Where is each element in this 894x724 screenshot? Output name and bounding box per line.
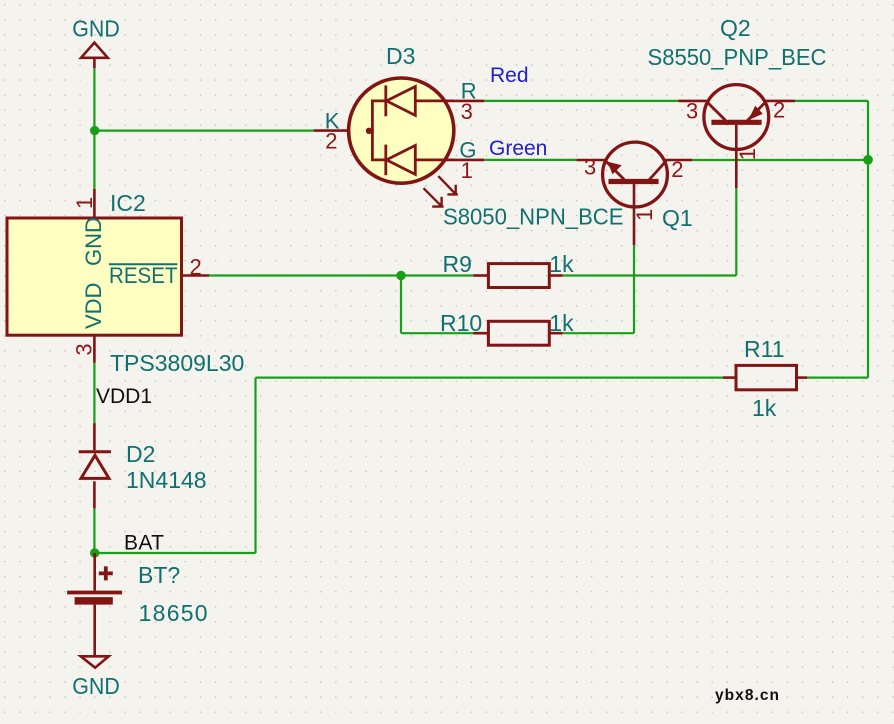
svg-text:1: 1 bbox=[72, 197, 97, 209]
wire up to Q1 base bbox=[633, 245, 635, 333]
power symbol GND bottom bbox=[81, 656, 109, 667]
wire R10 to Q1 base column bbox=[563, 332, 634, 334]
wire Q1 collector to right rail bbox=[692, 159, 868, 161]
bottom diode triangle bbox=[387, 145, 416, 174]
emitter diagonal bbox=[747, 102, 766, 121]
battery BT? bbox=[67, 553, 122, 656]
svg-text:2: 2 bbox=[671, 157, 683, 182]
wire junction to D3 K bbox=[94, 130, 313, 132]
base bar bbox=[711, 120, 761, 125]
pin R bbox=[454, 100, 485, 103]
pin 2 collector bbox=[664, 159, 692, 162]
resistor R9 bbox=[443, 251, 575, 288]
wire up to Q2 base bbox=[735, 188, 737, 276]
svg-text:3: 3 bbox=[584, 154, 596, 179]
wire RESET to R9 bbox=[209, 274, 473, 276]
svg-text:S8050_NPN_BCE: S8050_NPN_BCE bbox=[443, 204, 624, 230]
svg-text:IC2: IC2 bbox=[110, 190, 146, 216]
junction right rail bbox=[863, 155, 873, 165]
wire riser down to BAT bbox=[254, 378, 256, 553]
dual LED D3 bbox=[314, 78, 485, 207]
svg-text:VDD: VDD bbox=[81, 283, 106, 329]
junction BAT bbox=[90, 548, 99, 557]
svg-text:1: 1 bbox=[735, 148, 760, 160]
wire R11 left to riser bbox=[256, 377, 724, 379]
svg-text:3: 3 bbox=[461, 99, 473, 124]
svg-text:R9: R9 bbox=[443, 251, 472, 277]
svg-text:18650: 18650 bbox=[139, 600, 208, 626]
svg-text:GND: GND bbox=[81, 217, 106, 266]
svg-text:BAT: BAT bbox=[124, 532, 164, 555]
wire junction down to R10 row bbox=[400, 276, 402, 334]
svg-text:3: 3 bbox=[72, 343, 97, 355]
svg-text:TPS3809L30: TPS3809L30 bbox=[110, 350, 244, 376]
pin 1 base bbox=[735, 125, 738, 188]
junction RESET node bbox=[396, 271, 405, 280]
emitter arrow bbox=[608, 162, 622, 174]
wire right rail vertical bbox=[867, 101, 869, 378]
svg-text:1N4148: 1N4148 bbox=[126, 467, 207, 493]
svg-text:Green: Green bbox=[489, 137, 547, 160]
collector diagonal bbox=[649, 161, 666, 180]
svg-text:R10: R10 bbox=[440, 310, 482, 336]
bottom diode cathode bar bbox=[384, 145, 387, 176]
svg-text:2: 2 bbox=[190, 255, 202, 280]
svg-text:GND: GND bbox=[72, 16, 120, 42]
svg-text:Red: Red bbox=[490, 64, 529, 87]
top diode triangle bbox=[387, 87, 416, 116]
svg-text:1k: 1k bbox=[549, 251, 574, 277]
wire Q2 emitter to right rail bbox=[795, 100, 868, 102]
resistor R11 bbox=[723, 336, 807, 421]
wire D3 R to Q2 pin3 bbox=[484, 100, 678, 102]
plus sign bbox=[99, 566, 113, 580]
op-amp IC2 body (TPS3809 supervisor) bbox=[7, 217, 182, 335]
emitter diagonal bbox=[605, 161, 624, 180]
wire D3 G to Q1 pin3 bbox=[484, 159, 576, 161]
svg-text:1: 1 bbox=[632, 209, 657, 221]
emitter arrow (PNP, points to base) bbox=[748, 106, 763, 120]
transistor Q2 (S8550 PNP) bbox=[678, 85, 795, 188]
pin 1 base bbox=[633, 184, 636, 245]
svg-text:GND: GND bbox=[72, 673, 120, 699]
transistor Q1 (S8050 NPN) bbox=[576, 142, 692, 245]
IC2 pin 3 bbox=[72, 335, 97, 363]
wire GND to IC2 pin1 bbox=[93, 68, 95, 189]
pin 3 emitter bbox=[576, 159, 605, 162]
wire IC2 pin3 to D2 bbox=[93, 363, 95, 423]
resistor R10 bbox=[440, 310, 574, 345]
svg-text:D3: D3 bbox=[386, 43, 415, 69]
pin G bbox=[454, 159, 485, 162]
internal branch bbox=[369, 101, 386, 131]
junction at GND column bbox=[90, 126, 99, 135]
diode D2 bbox=[79, 423, 111, 508]
svg-text:S8550_PNP_BEC: S8550_PNP_BEC bbox=[648, 44, 827, 70]
svg-text:Q2: Q2 bbox=[720, 15, 751, 41]
wire D2 to BAT junction bbox=[93, 508, 95, 553]
svg-text:BT?: BT? bbox=[138, 562, 180, 588]
svg-text:2: 2 bbox=[325, 129, 337, 154]
svg-text:Q1: Q1 bbox=[662, 205, 693, 231]
svg-text:VDD1: VDD1 bbox=[96, 385, 152, 408]
svg-text:1: 1 bbox=[461, 158, 473, 183]
top diode cathode bar bbox=[384, 85, 387, 116]
pin 2 emitter bbox=[766, 100, 795, 103]
power symbol GND top bbox=[81, 43, 108, 69]
wire BAT junction to riser bbox=[94, 552, 255, 554]
pin K bbox=[314, 129, 348, 132]
svg-text:2: 2 bbox=[773, 98, 785, 123]
svg-text:1k: 1k bbox=[752, 395, 777, 421]
collector diagonal bbox=[707, 102, 726, 121]
svg-text:ybx8.cn: ybx8.cn bbox=[715, 687, 779, 704]
base bar bbox=[609, 179, 659, 184]
pin 3 collector bbox=[678, 100, 706, 103]
svg-text:3: 3 bbox=[686, 98, 698, 123]
IC2 pin 2 bbox=[182, 255, 209, 280]
wire to R10 left bbox=[401, 332, 473, 334]
svg-text:R11: R11 bbox=[744, 336, 785, 362]
wire R11 right to rail bbox=[807, 377, 868, 379]
svg-text:D2: D2 bbox=[126, 441, 155, 467]
LED emission arrows bbox=[424, 176, 458, 207]
top plate bbox=[67, 591, 122, 595]
bottom plate bbox=[75, 597, 113, 605]
svg-text:RESET: RESET bbox=[109, 263, 178, 288]
IC2 pin 1 bbox=[72, 189, 97, 218]
wire R9 to Q2 base column bbox=[563, 274, 737, 276]
